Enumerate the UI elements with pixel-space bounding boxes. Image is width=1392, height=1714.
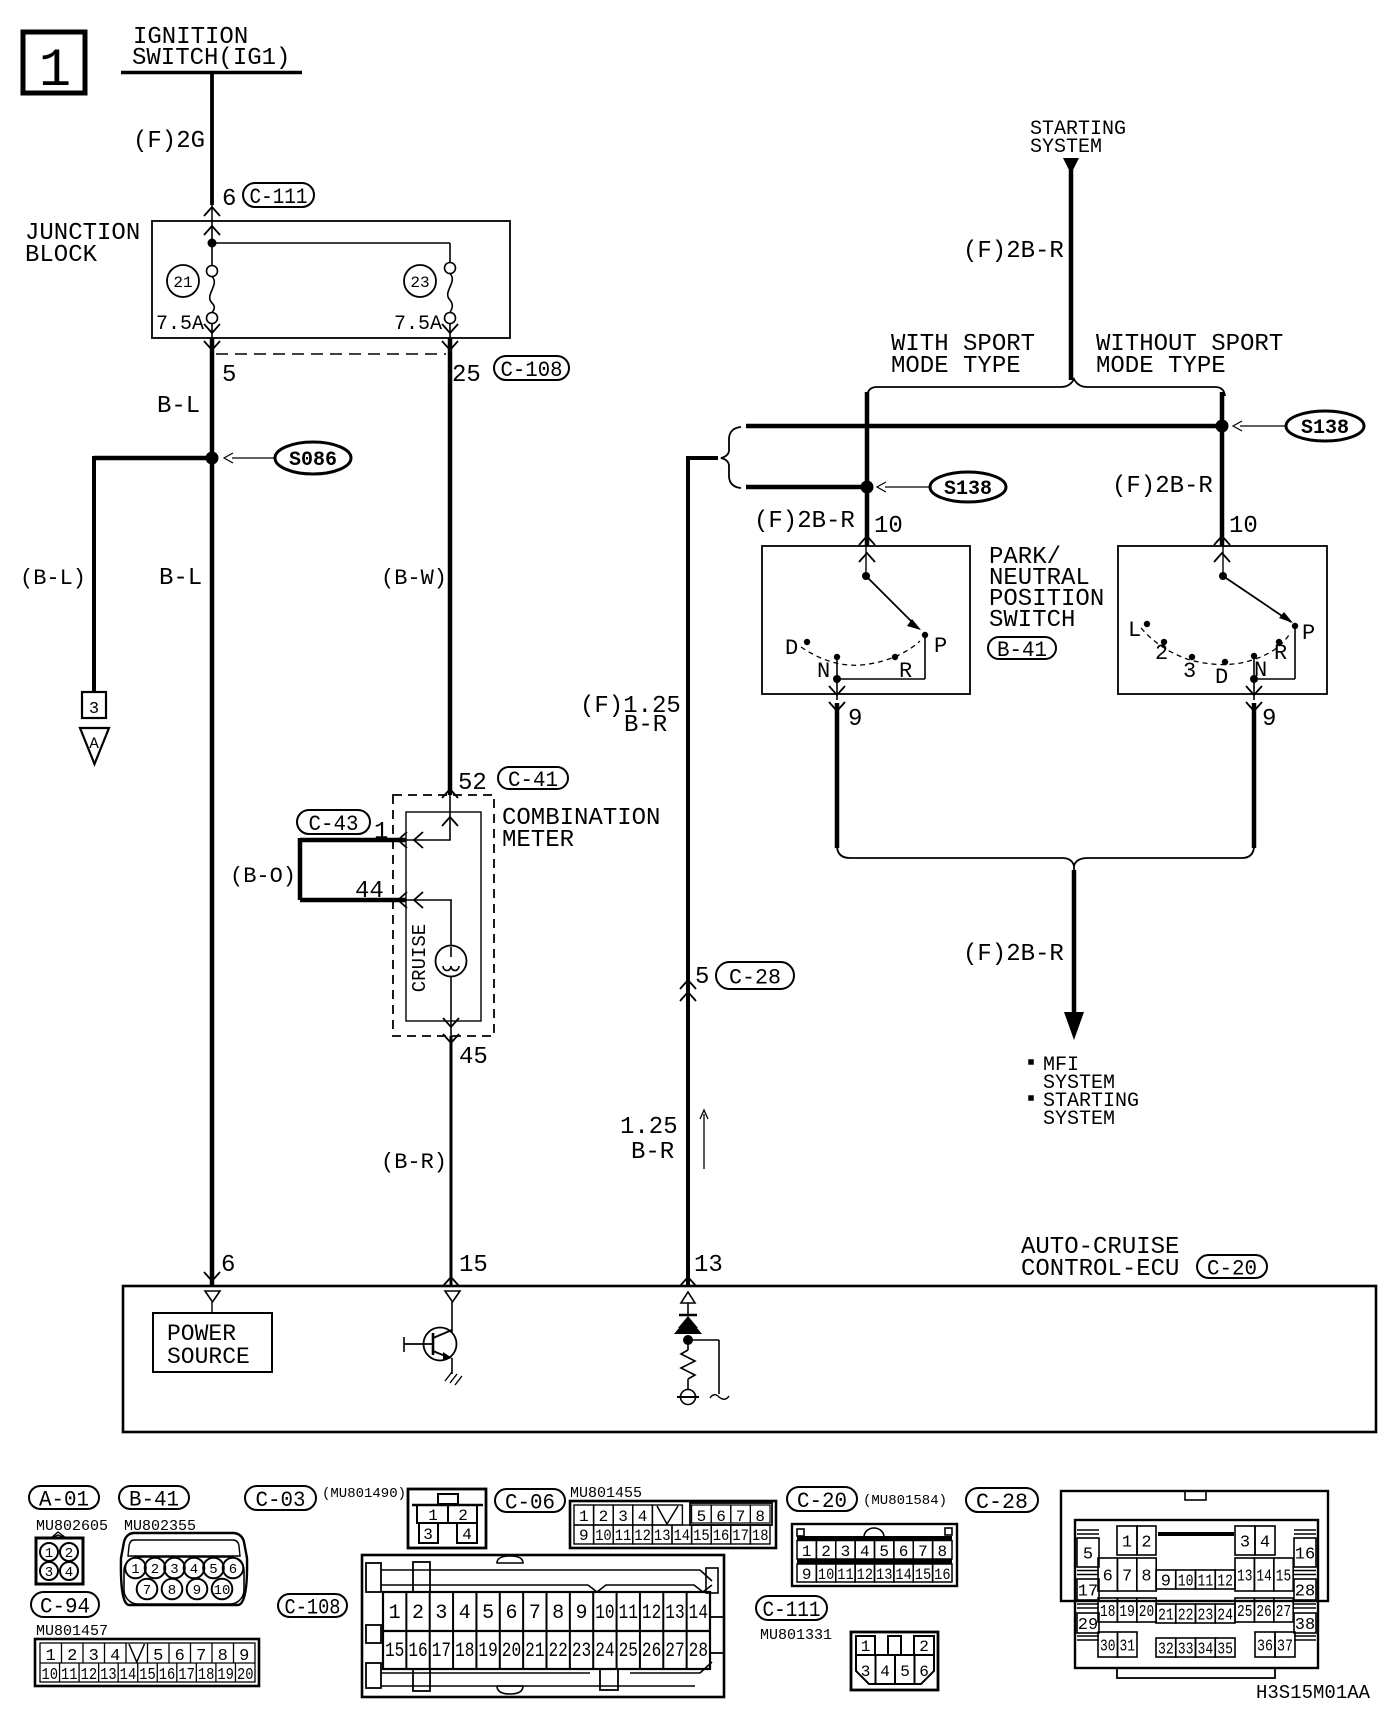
svg-text:19: 19 [1119, 1603, 1134, 1622]
svg-text:(MU801490): (MU801490) [322, 1486, 406, 1502]
svg-text:6: 6 [716, 1508, 726, 1526]
svg-text:2: 2 [599, 1508, 609, 1526]
svg-text:METER: METER [502, 827, 574, 854]
svg-text:16: 16 [159, 1666, 176, 1685]
wire (B-R) meter to ECU pin15 [381, 1036, 451, 1286]
svg-text:B-R: B-R [624, 712, 667, 739]
svg-text:10: 10 [595, 1602, 614, 1625]
svg-text:13: 13 [694, 1252, 723, 1279]
svg-text:(F)2B-R: (F)2B-R [754, 508, 855, 535]
svg-text:C-108: C-108 [285, 1595, 341, 1620]
bus wire upper rail [746, 424, 1222, 429]
node 5 connector C-28 mid-wire [680, 962, 794, 1001]
auto-cruise control ECU label [1021, 1234, 1267, 1283]
fuse 23 7.5A [394, 263, 456, 339]
svg-text:7: 7 [918, 1543, 928, 1561]
svg-text:5: 5 [695, 964, 709, 991]
svg-text:16: 16 [408, 1640, 427, 1663]
svg-text:9: 9 [848, 706, 862, 733]
connector label B-41 [119, 1486, 196, 1535]
svg-text:14: 14 [674, 1527, 691, 1545]
brace joining switch outputs [837, 847, 1254, 872]
svg-text:C-20: C-20 [1207, 1256, 1257, 1281]
svg-text:10: 10 [818, 1566, 834, 1584]
svg-text:(B-O): (B-O) [230, 864, 296, 889]
svg-text:5: 5 [482, 1602, 494, 1625]
svg-text:11: 11 [615, 1527, 632, 1545]
svg-text:15: 15 [385, 1640, 404, 1663]
node 25 connector C-108 [452, 356, 569, 389]
svg-text:18: 18 [198, 1666, 215, 1685]
svg-text:C-41: C-41 [508, 768, 558, 793]
connector C-94 pinout [35, 1639, 259, 1686]
bus wire lower rail [746, 485, 867, 490]
connector C-108 pinout [362, 1555, 724, 1697]
svg-text:2: 2 [1155, 641, 1168, 666]
svg-text:3: 3 [841, 1543, 851, 1561]
arrow from starting system [963, 158, 1079, 380]
svg-text:20: 20 [1139, 1603, 1154, 1622]
svg-text:13: 13 [1237, 1568, 1252, 1587]
svg-text:4: 4 [880, 1663, 890, 1681]
svg-text:B-41: B-41 [129, 1487, 179, 1512]
wire B-L vertical [157, 338, 212, 1286]
svg-text:19: 19 [217, 1666, 234, 1685]
svg-text:28: 28 [1295, 1583, 1315, 1602]
svg-text:18: 18 [752, 1527, 769, 1545]
svg-text:B-R: B-R [631, 1139, 674, 1166]
combination meter inner block [406, 805, 660, 1021]
svg-text:8: 8 [1141, 1568, 1151, 1587]
power source block [153, 1291, 272, 1372]
svg-text:B-41: B-41 [997, 638, 1047, 663]
svg-text:6: 6 [505, 1602, 517, 1625]
svg-text:20: 20 [237, 1666, 254, 1685]
svg-text:6: 6 [222, 186, 236, 213]
svg-text:1: 1 [131, 1562, 139, 1578]
splice S138 left [861, 472, 1007, 502]
svg-text:CRUISE: CRUISE [409, 924, 431, 992]
svg-text:14: 14 [689, 1602, 708, 1625]
MFI / starting system destination label [1029, 1054, 1139, 1131]
node 15 [443, 1252, 488, 1286]
svg-text:22: 22 [1178, 1607, 1194, 1626]
connector A-01 pinout [36, 1532, 83, 1584]
svg-text:44: 44 [355, 878, 384, 905]
svg-text:9: 9 [579, 1527, 589, 1545]
wire left switch to brace [835, 703, 840, 848]
svg-text:21: 21 [1158, 1607, 1174, 1626]
svg-text:(B-W): (B-W) [381, 566, 447, 591]
svg-text:(F)2G: (F)2G [133, 128, 205, 155]
connector label C-03 [245, 1486, 406, 1513]
connector C-20 pinout [792, 1524, 957, 1586]
svg-text:27: 27 [1276, 1603, 1291, 1622]
svg-text:3: 3 [45, 1565, 53, 1581]
svg-text:4: 4 [638, 1508, 648, 1526]
svg-text:9: 9 [193, 1583, 201, 1599]
connector label C-94 [31, 1592, 108, 1640]
svg-text:MU801455: MU801455 [570, 1485, 642, 1502]
svg-text:1: 1 [1122, 1534, 1132, 1553]
svg-text:(B-R): (B-R) [381, 1150, 447, 1175]
svg-text:12: 12 [634, 1527, 651, 1545]
switch arm right [1219, 546, 1293, 623]
svg-text:B-L: B-L [159, 565, 202, 592]
svg-text:N: N [817, 659, 830, 684]
splice S138 right [1216, 411, 1365, 441]
node 1 connector C-43 [297, 810, 423, 848]
wire without-sport vertical (right) [1220, 392, 1225, 546]
ignition switch (IG1) source label [121, 24, 302, 73]
svg-text:C-03: C-03 [256, 1488, 306, 1513]
svg-text:25: 25 [619, 1640, 638, 1663]
node 6 at ECU [204, 1252, 235, 1281]
svg-text:11: 11 [1198, 1573, 1214, 1592]
svg-text:(F)2B-R: (F)2B-R [963, 941, 1064, 968]
svg-text:MODE TYPE: MODE TYPE [891, 353, 1021, 380]
svg-text:28: 28 [689, 1640, 708, 1663]
wire pin44 to cruise lamp [406, 900, 452, 947]
svg-text:BLOCK: BLOCK [25, 242, 98, 269]
CRUISE indicator lamp [436, 946, 467, 977]
wire inside junction block [212, 221, 450, 266]
svg-text:2: 2 [412, 1602, 424, 1625]
svg-text:14: 14 [1256, 1568, 1271, 1587]
svg-text:8: 8 [755, 1508, 765, 1526]
junction block exit arrows [204, 324, 458, 350]
brace to both rails [721, 427, 741, 488]
svg-text:36: 36 [1257, 1638, 1273, 1657]
wire right switch to brace [1252, 703, 1257, 848]
node 9 left [829, 686, 862, 733]
svg-text:16: 16 [934, 1566, 950, 1584]
svg-text:24: 24 [595, 1640, 614, 1663]
svg-text:3: 3 [1240, 1534, 1250, 1553]
label (F)1.25 B-R [580, 693, 681, 739]
svg-text:SWITCH(IG1): SWITCH(IG1) [132, 45, 290, 72]
fuse 21 7.5A [156, 265, 218, 338]
brace splitting starting feed [867, 379, 1225, 396]
svg-text:C-108: C-108 [501, 358, 563, 383]
svg-text:MU801331: MU801331 [760, 1627, 832, 1644]
svg-text:5: 5 [900, 1663, 910, 1681]
node 10 left [859, 513, 903, 562]
connector C-06 pinout [570, 1501, 776, 1548]
svg-text:12: 12 [1217, 1573, 1233, 1592]
with sport mode type label [891, 331, 1035, 380]
svg-text:8: 8 [938, 1543, 948, 1561]
svg-text:26: 26 [1256, 1603, 1271, 1622]
svg-text:33: 33 [1178, 1641, 1194, 1660]
connector C-03 pinout [408, 1489, 486, 1548]
svg-text:1: 1 [45, 1546, 53, 1562]
park/neutral position switch (without sport) [1118, 546, 1327, 694]
wire P to N right [1250, 626, 1295, 700]
svg-text:9: 9 [576, 1602, 588, 1625]
svg-text:16: 16 [713, 1527, 730, 1545]
svg-text:(F)2B-R: (F)2B-R [1112, 473, 1213, 500]
svg-text:4: 4 [1260, 1534, 1270, 1553]
svg-text:7: 7 [529, 1602, 541, 1625]
label (F)2B-R right [1112, 473, 1213, 500]
node 9 right [1246, 686, 1276, 733]
svg-text:11: 11 [619, 1602, 638, 1625]
ground A [80, 728, 109, 764]
svg-text:5: 5 [879, 1543, 889, 1561]
svg-text:D: D [1215, 665, 1228, 690]
sheet number box 1 [23, 32, 85, 102]
svg-text:C-28: C-28 [729, 965, 781, 990]
svg-text:17: 17 [178, 1666, 195, 1685]
wire B-W vertical [381, 338, 450, 795]
svg-text:45: 45 [459, 1044, 488, 1071]
connector label C-20 [787, 1487, 947, 1514]
svg-text:31: 31 [1120, 1638, 1136, 1657]
svg-text:C-06: C-06 [505, 1490, 555, 1515]
drawing number H3S15M01AA [1256, 1682, 1371, 1704]
svg-text:14: 14 [895, 1566, 911, 1584]
without sport mode type label [1096, 331, 1283, 380]
svg-text:26: 26 [642, 1640, 661, 1663]
svg-text:10: 10 [214, 1583, 231, 1599]
connector 3 [82, 692, 106, 719]
svg-text:37: 37 [1277, 1638, 1293, 1657]
junction block [25, 220, 510, 338]
svg-text:15: 15 [139, 1666, 156, 1685]
node 52 connector C-41 [442, 767, 568, 826]
combination meter dashed housing [393, 795, 494, 1036]
svg-text:SYSTEM: SYSTEM [1030, 136, 1102, 159]
svg-text:24: 24 [1217, 1607, 1233, 1626]
wire inside meter pin52 to pin1 [406, 795, 451, 840]
connector label C-108 [278, 1594, 347, 1620]
svg-text:3: 3 [618, 1508, 628, 1526]
node 5 [222, 362, 236, 389]
svg-text:SWITCH: SWITCH [989, 607, 1075, 634]
svg-text:2: 2 [919, 1638, 929, 1656]
node 6 connector C-111 [204, 183, 314, 235]
connector C-28 pinout [1061, 1491, 1328, 1678]
svg-text:13: 13 [876, 1566, 892, 1584]
svg-text:21: 21 [525, 1640, 544, 1663]
node 13 [680, 1252, 723, 1286]
svg-text:(MU801584): (MU801584) [863, 1493, 947, 1509]
connector C-111 pinout [851, 1632, 938, 1690]
svg-text:10: 10 [1229, 513, 1258, 540]
connector B-41 pinout [121, 1533, 247, 1605]
svg-text:6: 6 [229, 1562, 237, 1578]
svg-text:C-28: C-28 [976, 1490, 1028, 1515]
svg-text:3: 3 [89, 700, 99, 719]
dashed connector line C-108 [216, 353, 446, 355]
transistor Q1 [404, 1291, 462, 1385]
svg-text:MODE TYPE: MODE TYPE [1096, 353, 1226, 380]
svg-text:5: 5 [697, 1508, 707, 1526]
svg-text:A-01: A-01 [39, 1487, 89, 1512]
svg-text:5: 5 [1083, 1546, 1093, 1565]
svg-text:6: 6 [221, 1252, 235, 1279]
svg-text:8: 8 [168, 1583, 176, 1599]
wire (B-O) jumper loop [230, 838, 406, 900]
svg-text:MU801457: MU801457 [36, 1623, 108, 1640]
svg-text:25: 25 [1237, 1603, 1252, 1622]
svg-text:1: 1 [389, 1602, 401, 1625]
svg-text:5: 5 [209, 1562, 217, 1578]
svg-text:38: 38 [1295, 1616, 1315, 1635]
svg-text:2: 2 [1141, 1534, 1151, 1553]
wire sport-mode vertical (left) [865, 392, 870, 546]
svg-text:6: 6 [899, 1543, 909, 1561]
svg-text:H3S15M01AA: H3S15M01AA [1256, 1682, 1371, 1704]
svg-text:15: 15 [1276, 1568, 1291, 1587]
svg-text:4: 4 [65, 1565, 73, 1581]
connector label A-01 [29, 1486, 108, 1535]
svg-text:18: 18 [455, 1640, 474, 1663]
svg-text:CONTROL-ECU: CONTROL-ECU [1021, 1256, 1179, 1283]
svg-text:30: 30 [1100, 1638, 1116, 1657]
svg-text:14: 14 [120, 1666, 137, 1685]
label 1.25 B-R with arrow [620, 1110, 708, 1169]
label (F)2B-R left [754, 508, 855, 535]
svg-text:C-111: C-111 [250, 185, 308, 210]
svg-text:15: 15 [459, 1252, 488, 1279]
svg-text:(F)2B-R: (F)2B-R [963, 238, 1064, 265]
svg-text:12: 12 [642, 1602, 661, 1625]
svg-text:52: 52 [458, 770, 487, 797]
svg-text:1: 1 [802, 1543, 812, 1561]
starting system feed label [1030, 118, 1126, 159]
connector label C-111 [756, 1596, 832, 1644]
svg-text:10: 10 [874, 513, 903, 540]
svg-text:C-43: C-43 [309, 812, 359, 837]
svg-text:9: 9 [1262, 706, 1276, 733]
wire 1.25 B-R riser [686, 458, 718, 1286]
svg-text:7.5A: 7.5A [156, 313, 204, 336]
splice S086 [206, 442, 352, 474]
svg-text:23: 23 [572, 1640, 591, 1663]
svg-text:D: D [785, 636, 798, 661]
svg-text:23: 23 [1198, 1607, 1214, 1626]
wire (F)2G from ignition switch [133, 73, 212, 221]
svg-text:21: 21 [173, 274, 192, 292]
contacts left [785, 632, 947, 684]
svg-text:P: P [934, 634, 947, 659]
park/neutral position switch label [989, 544, 1104, 634]
svg-text:13: 13 [665, 1602, 684, 1625]
svg-text:2: 2 [65, 1546, 73, 1562]
svg-text:6: 6 [1103, 1568, 1113, 1587]
svg-text:8: 8 [552, 1602, 564, 1625]
svg-text:3: 3 [1183, 659, 1196, 684]
svg-text:7: 7 [143, 1583, 151, 1599]
svg-text:9: 9 [802, 1566, 812, 1584]
svg-text:S086: S086 [289, 449, 337, 472]
svg-text:17: 17 [732, 1527, 749, 1545]
contacts right [1128, 618, 1315, 690]
svg-text:C-111: C-111 [763, 1598, 821, 1623]
svg-text:17: 17 [432, 1640, 451, 1663]
svg-text:1: 1 [579, 1508, 589, 1526]
svg-text:3: 3 [423, 1526, 433, 1544]
svg-text:4: 4 [462, 1526, 472, 1544]
svg-text:10: 10 [1178, 1573, 1194, 1592]
svg-text:5: 5 [222, 362, 236, 389]
svg-text:15: 15 [915, 1566, 931, 1584]
wire lamp to pin45 [443, 977, 459, 1044]
connector label C-06 [495, 1485, 642, 1515]
svg-text:3: 3 [435, 1602, 447, 1625]
connector label C-28 [966, 1488, 1038, 1515]
svg-text:4: 4 [190, 1562, 198, 1578]
svg-text:16: 16 [1295, 1546, 1315, 1565]
diode and resistor at pin 13 [674, 1292, 729, 1405]
svg-text:27: 27 [665, 1640, 684, 1663]
svg-text:C-20: C-20 [797, 1489, 847, 1514]
svg-text:12: 12 [857, 1566, 873, 1584]
node 10 right [1214, 513, 1258, 562]
svg-text:10: 10 [42, 1666, 59, 1685]
svg-text:1.25: 1.25 [620, 1114, 678, 1141]
svg-text:23: 23 [410, 274, 429, 292]
node 44 [355, 878, 423, 908]
svg-text:20: 20 [502, 1640, 521, 1663]
svg-text:MU802605: MU802605 [36, 1518, 108, 1535]
svg-text:35: 35 [1217, 1641, 1233, 1660]
svg-text:B-L: B-L [157, 393, 200, 420]
svg-text:A: A [89, 735, 99, 753]
svg-text:34: 34 [1198, 1641, 1214, 1660]
svg-text:22: 22 [549, 1640, 568, 1663]
switch arm left [862, 546, 921, 630]
svg-text:L: L [1128, 618, 1141, 643]
svg-text:18: 18 [1100, 1603, 1115, 1622]
auto-cruise control ECU box [123, 1286, 1376, 1432]
svg-text:12: 12 [81, 1666, 98, 1685]
svg-text:4: 4 [860, 1543, 870, 1561]
svg-text:4: 4 [459, 1602, 471, 1625]
svg-text:S138: S138 [1301, 417, 1349, 440]
svg-text:C-94: C-94 [40, 1594, 90, 1619]
svg-text:7: 7 [1122, 1568, 1132, 1587]
svg-text:25: 25 [452, 362, 481, 389]
wire (F)2B-R to MFI/starting [963, 870, 1084, 1040]
svg-text:10: 10 [595, 1527, 612, 1545]
svg-text:13: 13 [654, 1527, 671, 1545]
svg-text:6: 6 [919, 1663, 929, 1681]
svg-text:13: 13 [100, 1666, 117, 1685]
node 45 [459, 1044, 488, 1071]
svg-text:R: R [1274, 641, 1287, 666]
svg-text:1: 1 [861, 1638, 871, 1656]
svg-text:1: 1 [39, 41, 71, 102]
connector label B-41 [988, 637, 1056, 663]
CRUISE label [409, 924, 431, 992]
svg-text:17: 17 [1078, 1583, 1098, 1602]
svg-text:2: 2 [151, 1562, 159, 1578]
svg-text:2: 2 [821, 1543, 831, 1561]
wire P to N left [833, 635, 925, 700]
svg-text:3: 3 [170, 1562, 178, 1578]
svg-text:11: 11 [61, 1666, 78, 1685]
svg-text:29: 29 [1078, 1616, 1098, 1635]
svg-text:9: 9 [1161, 1573, 1171, 1592]
svg-text:SOURCE: SOURCE [167, 1344, 250, 1370]
svg-text:R: R [899, 659, 912, 684]
svg-text:19: 19 [478, 1640, 497, 1663]
park/neutral position switch (sport mode) [762, 546, 970, 694]
svg-text:15: 15 [693, 1527, 710, 1545]
